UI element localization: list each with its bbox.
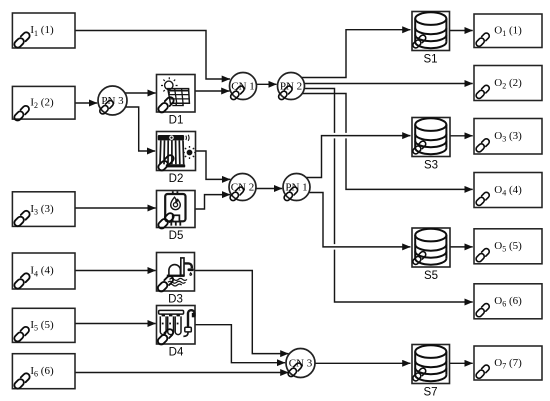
svg-text:I4 (4): I4 (4) xyxy=(30,265,54,279)
svg-text:O1 (1): O1 (1) xyxy=(494,25,522,39)
svg-text:S3: S3 xyxy=(424,159,438,171)
svg-text:S1: S1 xyxy=(423,53,437,65)
svg-text:S7: S7 xyxy=(423,386,437,398)
svg-text:D5: D5 xyxy=(169,230,184,242)
svg-text:O6 (6): O6 (6) xyxy=(494,295,522,309)
svg-text:I6 (6): I6 (6) xyxy=(30,365,54,379)
svg-text:D1: D1 xyxy=(169,115,184,127)
svg-text:D4: D4 xyxy=(169,347,184,359)
svg-text:I5 (5): I5 (5) xyxy=(30,319,54,333)
svg-text:D2: D2 xyxy=(169,173,184,185)
svg-text:O3 (3): O3 (3) xyxy=(494,130,522,144)
svg-text:D3: D3 xyxy=(168,294,183,306)
svg-text:I3 (3): I3 (3) xyxy=(30,203,54,217)
svg-text:I1 (1): I1 (1) xyxy=(30,24,54,38)
svg-text:O5 (5): O5 (5) xyxy=(494,240,522,254)
svg-text:O2 (2): O2 (2) xyxy=(494,77,522,91)
svg-text:I2 (2): I2 (2) xyxy=(30,97,54,111)
svg-text:O4 (4): O4 (4) xyxy=(494,184,522,198)
svg-text:S5: S5 xyxy=(424,270,438,282)
svg-text:O7 (7): O7 (7) xyxy=(494,357,522,371)
